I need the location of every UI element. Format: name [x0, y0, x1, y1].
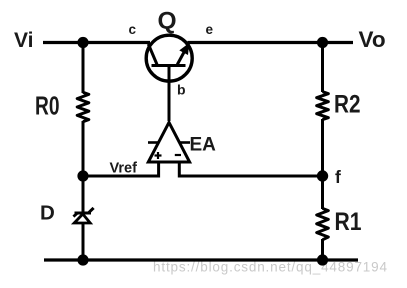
op-amp EA plus sign	[155, 154, 162, 156]
wire: Vi to node A	[43, 41, 150, 44]
zener diode D cathode right tail	[89, 208, 94, 213]
svg-text:f: f	[335, 167, 341, 187]
resistor R1	[317, 208, 329, 239]
wire: node C to EA + input	[83, 175, 160, 178]
svg-text:D: D	[40, 201, 55, 224]
wire: R0 down to node C	[82, 121, 85, 177]
junction dot rail right	[317, 254, 328, 265]
svg-text:b: b	[177, 81, 186, 97]
zener diode D triangle	[74, 214, 90, 223]
zener diode D cathode bar	[75, 212, 92, 215]
node B junction dot	[317, 37, 328, 48]
wire: R1 down to ground rail	[321, 239, 324, 260]
wire: Q base lead down to EA output	[168, 66, 171, 122]
svg-text:Vo: Vo	[359, 27, 386, 52]
wire: node f down to R1	[321, 176, 324, 209]
transistor Q collector leg	[148, 44, 157, 65]
svg-text:Q: Q	[158, 8, 177, 35]
junction dot rail left	[77, 254, 88, 265]
op-amp EA plus input stub	[157, 162, 160, 178]
transistor Q emitter leg	[177, 44, 188, 65]
node f junction dot	[317, 170, 328, 181]
node A junction dot	[77, 37, 88, 48]
transistor Q base bar	[152, 64, 186, 67]
svg-text:https://blog.csdn.net/qq_44897: https://blog.csdn.net/qq_44897194	[153, 260, 387, 275]
node C junction dot (Vref tap)	[77, 170, 88, 181]
zener diode D cathode left tail	[73, 213, 77, 216]
op-amp EA triangle	[148, 122, 189, 162]
resistor R0	[77, 92, 89, 121]
transistor Q emitter arrowhead	[179, 43, 189, 55]
wire: R2 down to node f	[321, 119, 324, 177]
op-amp EA minus input stub	[178, 162, 181, 178]
wire: EA - input to node f	[178, 175, 323, 178]
svg-text:Vref: Vref	[110, 159, 138, 176]
resistor R2	[317, 92, 329, 120]
svg-text:c: c	[129, 22, 137, 37]
svg-text:R1: R1	[335, 208, 362, 236]
op-amp EA right input tick	[180, 141, 191, 144]
ground rail	[44, 258, 358, 261]
svg-text:e: e	[206, 22, 214, 37]
wire: node C down to zener D	[82, 176, 85, 212]
op-amp EA left input tick	[148, 141, 159, 144]
wire: Q emitter to Vo	[188, 41, 354, 44]
op-amp EA minus sign	[175, 154, 181, 156]
svg-text:R2: R2	[334, 90, 361, 118]
wire: node B down to R2	[321, 43, 324, 93]
wire: zener D down to ground rail	[82, 222, 85, 260]
wire: node A down to R0	[82, 43, 85, 94]
svg-text:R0: R0	[35, 93, 60, 121]
svg-text:Vi: Vi	[14, 29, 33, 52]
svg-text:EA: EA	[190, 134, 217, 155]
transistor Q body circle	[146, 35, 192, 81]
